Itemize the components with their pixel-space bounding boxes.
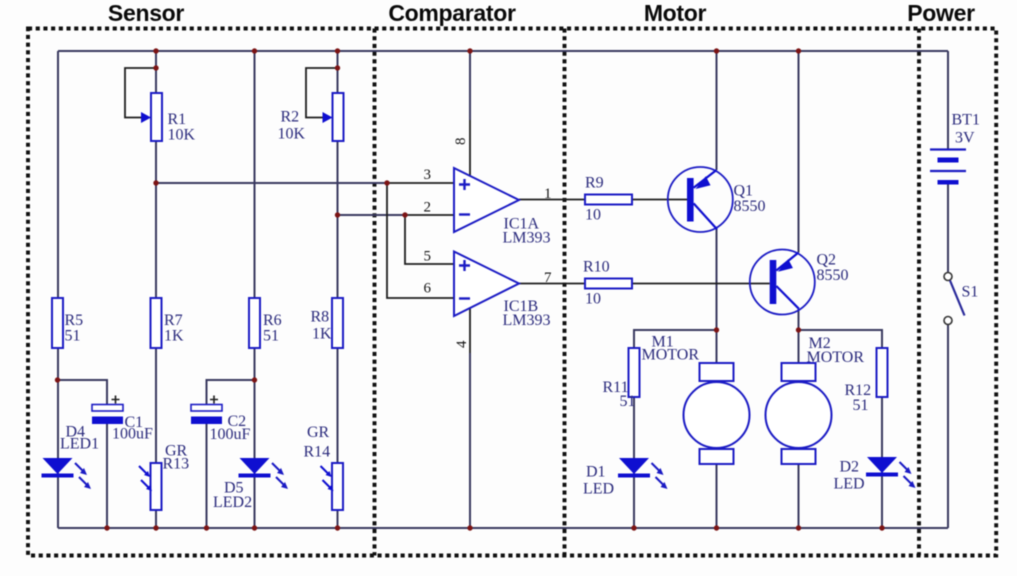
node top rail R6: [252, 48, 257, 53]
wire Q1 emitter to rail: [716, 51, 718, 170]
svg-text:3: 3: [424, 167, 432, 183]
resistor R9: [585, 195, 632, 205]
svg-text:2: 2: [424, 200, 432, 216]
svg-text:51: 51: [263, 328, 279, 345]
wire pin8 to rail: [469, 51, 471, 120]
node R1 tap: [153, 180, 158, 185]
svg-text:R13: R13: [163, 456, 190, 473]
svg-text:5: 5: [424, 249, 432, 265]
svg-text:R6: R6: [263, 312, 282, 329]
wire branch to C1: [58, 380, 108, 404]
svg-text:BT1: BT1: [952, 112, 980, 129]
capacitor C1: [92, 396, 123, 425]
node ground C2: [204, 525, 209, 530]
dotted separator Comparator/Motor: [563, 29, 567, 556]
op-amp IC1A: [454, 168, 519, 232]
svg-text:LED2: LED2: [213, 494, 252, 511]
svg-text:8550: 8550: [734, 198, 766, 215]
wire C2 to ground: [206, 424, 208, 528]
svg-text:R7: R7: [164, 312, 183, 329]
resistor R6: [249, 298, 260, 348]
svg-text:R9: R9: [585, 175, 604, 192]
wire column R2/R8/R14: [337, 51, 339, 528]
node top rail pin8: [467, 48, 472, 53]
svg-text:3V: 3V: [955, 130, 975, 147]
wire R10 to Q2 base: [632, 283, 770, 285]
wire branch to R11: [634, 330, 717, 528]
node pin6 branch: [384, 180, 389, 185]
node pin5 branch: [402, 212, 407, 217]
wire pin4 stub: [469, 308, 471, 353]
node R2 wiper: [335, 65, 340, 70]
transistor Q1: [668, 167, 733, 232]
node top rail R2: [335, 48, 340, 53]
svg-text:100uF: 100uF: [210, 426, 251, 443]
switch S1: [944, 273, 965, 325]
node ground R14: [335, 525, 340, 530]
wire left column R5/D4: [57, 51, 59, 528]
svg-text:R14: R14: [304, 444, 331, 461]
wire IC1A output to R9: [519, 199, 585, 201]
node ground R13: [153, 525, 158, 530]
wire branch to C2: [207, 380, 255, 404]
svg-text:1: 1: [544, 186, 552, 202]
node ground pin4: [467, 525, 472, 530]
wire pin4 to ground: [469, 353, 471, 528]
svg-text:D1: D1: [586, 464, 606, 481]
transistor Q2: [750, 250, 815, 315]
wire Q2 collector to M2 and ground: [798, 309, 800, 528]
node top rail R1: [153, 48, 158, 53]
LED D4: [42, 458, 92, 489]
resistor R11: [629, 348, 640, 397]
svg-text:LM393: LM393: [503, 312, 551, 329]
svg-text:R1: R1: [168, 111, 187, 128]
node ground D1: [631, 525, 636, 530]
svg-text:8550: 8550: [817, 267, 849, 284]
potentiometer R2: [323, 93, 344, 141]
motor M2: [766, 363, 832, 464]
LED D5: [239, 458, 289, 489]
resistor R5: [52, 298, 63, 348]
wire C1 to ground: [106, 424, 108, 528]
potentiometer R1: [141, 93, 162, 141]
svg-text:MOTOR: MOTOR: [807, 349, 865, 366]
svg-text:Comparator: Comparator: [388, 0, 516, 26]
svg-text:51: 51: [65, 328, 81, 345]
dotted separator Motor/Power: [917, 29, 921, 556]
photoresistor R14: [321, 463, 344, 510]
wire R1 wiper loop: [125, 68, 156, 118]
wire Q2 emitter to rail: [798, 51, 800, 253]
svg-text:LM393: LM393: [503, 230, 551, 247]
svg-text:1K: 1K: [164, 328, 184, 345]
svg-text:GR: GR: [307, 424, 330, 441]
svg-text:7: 7: [544, 270, 552, 286]
svg-text:Motor: Motor: [644, 0, 707, 26]
dotted separator Sensor/Comparator: [373, 29, 377, 556]
svg-text:10K: 10K: [168, 127, 196, 144]
wire Q1 collector to M1 and ground: [716, 229, 718, 528]
svg-text:51: 51: [620, 393, 636, 410]
LED D1: [618, 458, 668, 489]
wire pin8 stub: [469, 120, 471, 176]
wire battery to switch: [947, 185, 949, 273]
node ground C1: [104, 525, 109, 530]
svg-text:LED: LED: [583, 481, 614, 498]
wire IC1B output to R10: [519, 283, 585, 285]
svg-text:LED: LED: [834, 476, 865, 493]
resistor R12: [877, 348, 888, 397]
svg-text:R8: R8: [311, 309, 330, 326]
wire R1 node to pin3: [156, 182, 387, 184]
wire bottom ground rail: [58, 527, 948, 529]
node R6 D5 C2: [252, 377, 257, 382]
svg-text:D2: D2: [840, 459, 860, 476]
node top rail Q1: [714, 48, 719, 53]
svg-text:10: 10: [585, 207, 601, 224]
resistor R7: [151, 298, 162, 348]
svg-text:Q2: Q2: [817, 252, 837, 269]
photoresistor R13: [139, 463, 162, 510]
wire branch to pin6: [387, 183, 454, 298]
wire column R1/R7/R13: [155, 51, 157, 528]
wire pin2 stub: [405, 214, 454, 216]
node ground D5: [252, 525, 257, 530]
motor M1: [684, 363, 750, 464]
svg-text:1K: 1K: [312, 326, 332, 343]
wire branch to pin5: [405, 215, 454, 264]
wire R9 to Q1 base: [632, 199, 687, 201]
wire battery top lead: [947, 51, 949, 149]
svg-text:8: 8: [453, 138, 469, 146]
svg-text:R2: R2: [281, 109, 300, 126]
node Q1 collector M1: [714, 327, 719, 332]
svg-text:R5: R5: [65, 312, 84, 329]
svg-text:51: 51: [853, 397, 869, 414]
resistor R8: [332, 298, 343, 348]
node R5 D4 C1: [55, 377, 60, 382]
node Q2 collector M2: [796, 327, 801, 332]
svg-text:10K: 10K: [278, 126, 306, 143]
node R2 tap: [335, 212, 340, 217]
svg-text:Power: Power: [907, 0, 975, 26]
svg-text:Sensor: Sensor: [108, 0, 185, 26]
LED D2: [866, 457, 916, 488]
svg-text:Q1: Q1: [734, 183, 754, 200]
wire pin3 stub: [387, 182, 454, 184]
svg-text:S1: S1: [962, 284, 979, 301]
wire R2 node to pin2: [338, 214, 406, 216]
svg-text:6: 6: [424, 281, 432, 297]
resistor R10: [585, 279, 632, 289]
wire branch to R12: [799, 330, 883, 528]
node R1 wiper: [153, 65, 158, 70]
op-amp IC1B: [454, 252, 519, 317]
wire top power rail: [58, 50, 948, 52]
svg-text:MOTOR: MOTOR: [642, 347, 700, 364]
wire R2 wiper loop: [306, 68, 338, 118]
svg-text:LED1: LED1: [60, 436, 99, 453]
capacitor C2: [191, 396, 222, 425]
svg-text:R10: R10: [583, 259, 610, 276]
battery BT1: [930, 150, 966, 185]
node ground D2: [879, 525, 884, 530]
node ground M1: [714, 525, 719, 530]
node top rail Q2: [796, 48, 801, 53]
svg-text:4: 4: [454, 340, 470, 348]
wire column R6/D5: [254, 51, 256, 528]
svg-text:10: 10: [585, 291, 601, 308]
node ground M2: [796, 525, 801, 530]
wire switch to ground rail: [947, 325, 949, 529]
svg-text:100uF: 100uF: [112, 426, 153, 443]
